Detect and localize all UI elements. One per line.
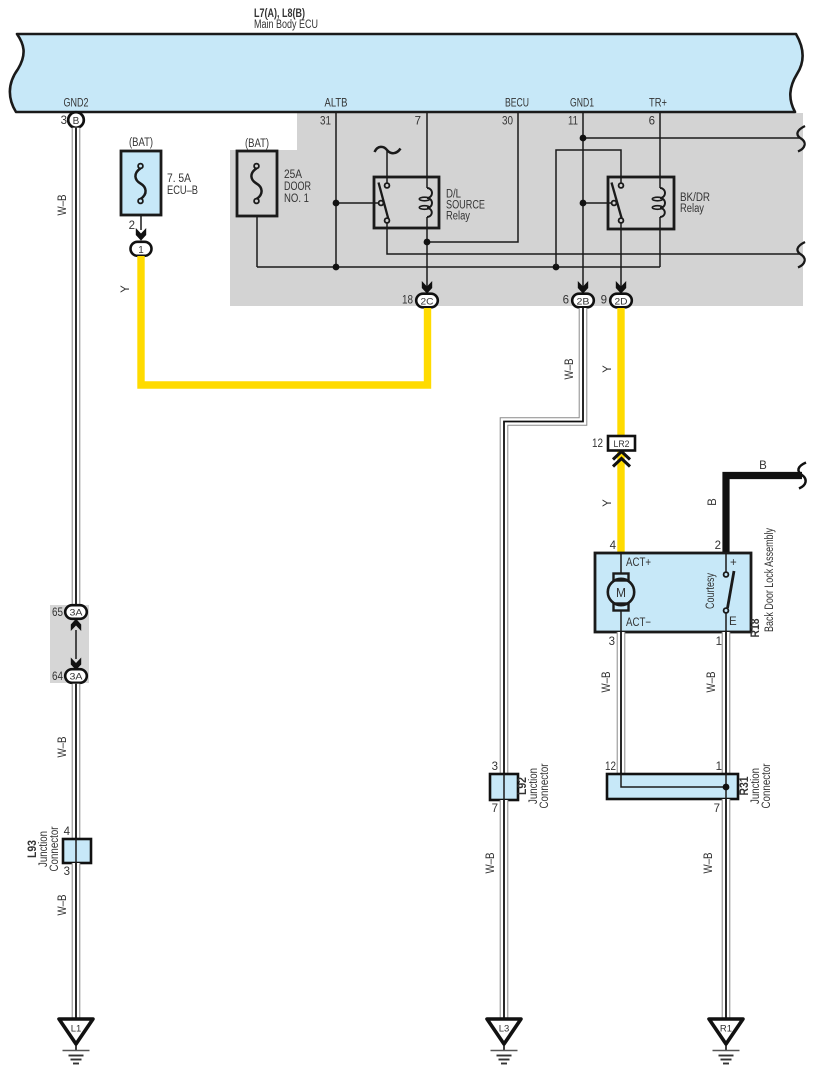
svg-text:W–B: W–B — [601, 671, 613, 692]
svg-text:25A: 25A — [284, 169, 302, 181]
svg-text:3: 3 — [609, 636, 615, 648]
svg-text:W–B: W–B — [706, 671, 718, 692]
coil BK/DR — [660, 188, 665, 217]
wire GND1 branch to break (right) — [583, 137, 800, 139]
svg-text:W–B: W–B — [57, 194, 69, 215]
svg-text:W–B: W–B — [703, 852, 715, 873]
svg-text:3: 3 — [64, 866, 70, 878]
wire fuse 25A down — [256, 216, 258, 267]
svg-text:2: 2 — [715, 540, 721, 552]
wire feed to BK/DR switch — [556, 150, 621, 267]
relay block shading (gray region) — [230, 113, 803, 306]
svg-text:W–B: W–B — [57, 736, 69, 757]
wire W-B L93 to ground — [72, 863, 81, 1019]
svg-text:ACT+: ACT+ — [626, 557, 651, 569]
node ALTB/DL — [333, 200, 340, 207]
wire Y from fuse to 2C (yellow) — [141, 256, 428, 385]
svg-text:L1: L1 — [71, 1024, 82, 1035]
svg-text:B: B — [73, 116, 80, 127]
svg-text:Y: Y — [120, 285, 132, 293]
node coil/BECU — [424, 239, 431, 246]
svg-text:LR2: LR2 — [614, 439, 630, 450]
svg-text:Connector: Connector — [539, 763, 551, 808]
svg-text:Y: Y — [602, 499, 614, 507]
svg-text:Relay: Relay — [680, 203, 704, 215]
motor M — [614, 574, 629, 581]
connector oval 1 — [131, 242, 152, 256]
connector oval 3A (64) — [65, 669, 87, 683]
svg-text:4: 4 — [610, 540, 617, 552]
wire D/L coil to 2C — [426, 217, 428, 287]
ground L3 — [487, 1019, 521, 1044]
break squiggle B wire — [798, 463, 806, 489]
svg-text:1: 1 — [716, 761, 722, 773]
svg-text:Back Door Lock Assembly: Back Door Lock Assembly — [764, 528, 776, 632]
wire D/L switch to break line — [387, 223, 800, 254]
connector 2C arrow — [422, 281, 432, 294]
arrow down — [71, 658, 81, 671]
svg-text:Relay: Relay — [446, 211, 470, 223]
svg-text:11: 11 — [568, 116, 578, 128]
svg-text:DOOR: DOOR — [284, 181, 311, 193]
svg-text:E: E — [729, 616, 737, 628]
connector oval 3A (65) — [65, 605, 87, 619]
break squiggle top right — [797, 126, 805, 152]
wire TR+ to BK/DR coil — [659, 113, 661, 188]
svg-text:2C: 2C — [421, 296, 434, 307]
svg-text:Main Body ECU: Main Body ECU — [254, 19, 318, 31]
relay D/L SOURCE — [374, 177, 439, 228]
connector arrow down — [136, 228, 146, 241]
svg-text:9: 9 — [601, 295, 607, 307]
svg-text:ECU–B: ECU–B — [167, 185, 198, 197]
svg-text:B: B — [759, 460, 767, 472]
svg-text:65: 65 — [52, 607, 63, 619]
svg-text:W–B: W–B — [564, 358, 576, 379]
connector 2D arrow — [616, 281, 626, 294]
arrow up — [71, 619, 81, 631]
wire GND1 vertical to 2B — [582, 113, 584, 287]
wire W-B R31 to ground — [722, 799, 731, 1019]
svg-text:M: M — [616, 585, 626, 600]
coil D/L — [427, 188, 432, 217]
svg-text:64: 64 — [52, 671, 64, 683]
svg-text:TR+: TR+ — [649, 98, 667, 110]
connector oval 2B — [572, 294, 594, 308]
svg-text:6: 6 — [649, 116, 655, 128]
node R31 junction — [723, 784, 730, 791]
svg-text:7: 7 — [492, 803, 498, 815]
wire BK/DR switch to 2D — [620, 223, 622, 287]
svg-text:2D: 2D — [615, 296, 628, 307]
svg-text:GND1: GND1 — [570, 98, 594, 110]
connector 2B arrow — [578, 281, 588, 294]
svg-text:W–B: W–B — [485, 852, 497, 873]
wire between connectors — [75, 630, 77, 659]
svg-text:2: 2 — [129, 220, 135, 232]
wire BECU vertical — [427, 113, 518, 242]
wire BK/DR coil down to bus — [659, 217, 661, 267]
wire fuse to connector 1 — [140, 215, 142, 230]
ground L1 — [59, 1019, 93, 1044]
svg-text:3A: 3A — [70, 608, 84, 619]
svg-text:(BAT): (BAT) — [245, 138, 269, 150]
break wire above D/L relay — [375, 147, 401, 153]
wire pin7 to D/L coil — [426, 113, 428, 188]
svg-text:Connector: Connector — [49, 826, 61, 871]
svg-text:Connector: Connector — [761, 763, 773, 808]
svg-text:BECU: BECU — [505, 98, 529, 110]
courtesy switch — [725, 553, 727, 572]
wire pin4 to motor — [620, 553, 622, 574]
wire ALTB vertical — [335, 113, 337, 267]
connector shading band for 3A connectors — [50, 605, 89, 683]
svg-text:R18: R18 — [750, 618, 762, 638]
svg-text:12: 12 — [605, 761, 616, 773]
svg-text:7. 5A: 7. 5A — [167, 173, 191, 185]
svg-text:Courtesy: Courtesy — [705, 573, 717, 609]
svg-text:NO. 1: NO. 1 — [284, 193, 309, 205]
wire W-B from 3A to L93 — [72, 684, 81, 839]
svg-text:GND2: GND2 — [64, 98, 89, 110]
svg-text:B: B — [707, 498, 719, 506]
wire W-B from 2B to L92 (jog) — [504, 308, 583, 774]
svg-text:Y: Y — [602, 365, 614, 373]
node ALTB/bus — [333, 264, 340, 271]
wire GND1 to BK/DR switch — [583, 202, 612, 204]
relay BK/DR — [608, 177, 674, 229]
node GND1/BKDR — [580, 200, 587, 207]
svg-text:R1: R1 — [720, 1024, 732, 1035]
wire B thick black to R18 pin2 — [726, 476, 802, 554]
svg-text:3A: 3A — [70, 672, 84, 683]
node GND1/break junction — [580, 135, 587, 142]
svg-text:+: + — [730, 557, 737, 569]
wire W-B R18 pin3 to R31 — [617, 632, 626, 774]
connector oval 2C — [416, 294, 438, 308]
svg-text:L3: L3 — [499, 1024, 510, 1035]
svg-text:7: 7 — [714, 803, 720, 815]
wire W-B from B circle down to 3A — [72, 128, 81, 606]
wire bus y=267 — [257, 266, 660, 268]
wire W-B R18 pin1 to R31 — [722, 632, 731, 774]
svg-text:18: 18 — [402, 295, 413, 307]
svg-text:(BAT): (BAT) — [129, 137, 153, 149]
node bus/BKDR feed — [553, 264, 560, 271]
wire Y from 2D to R18 (yellow) — [617, 308, 624, 553]
svg-text:30: 30 — [502, 116, 513, 128]
ground R1 — [709, 1019, 743, 1044]
svg-text:31: 31 — [320, 116, 331, 128]
connector oval 2D — [610, 294, 632, 308]
svg-text:2B: 2B — [577, 296, 590, 307]
svg-text:3: 3 — [61, 115, 67, 127]
svg-text:7: 7 — [415, 116, 421, 128]
svg-text:3: 3 — [492, 761, 498, 773]
svg-text:ACT−: ACT− — [626, 617, 651, 629]
svg-text:4: 4 — [64, 826, 71, 838]
wire W-B L92 to ground — [500, 800, 509, 1019]
break squiggle right (y=254) — [797, 242, 805, 268]
svg-text:1: 1 — [138, 244, 144, 256]
wire ALTB to D/L switch — [336, 202, 379, 204]
svg-text:ALTB: ALTB — [325, 98, 348, 110]
svg-text:6: 6 — [563, 295, 569, 307]
Main Body ECU block L7(A),L8(B) — [10, 34, 803, 112]
svg-text:12: 12 — [592, 438, 603, 450]
svg-text:1: 1 — [716, 636, 722, 648]
svg-text:W–B: W–B — [57, 894, 69, 915]
wire motor to pin3 — [620, 611, 622, 633]
fuse 7.5A ECU-B — [121, 151, 161, 215]
fuse 25A DOOR NO.1 — [237, 151, 277, 216]
chevrons below LR2 — [613, 452, 630, 460]
pin B circle connector — [68, 112, 84, 128]
